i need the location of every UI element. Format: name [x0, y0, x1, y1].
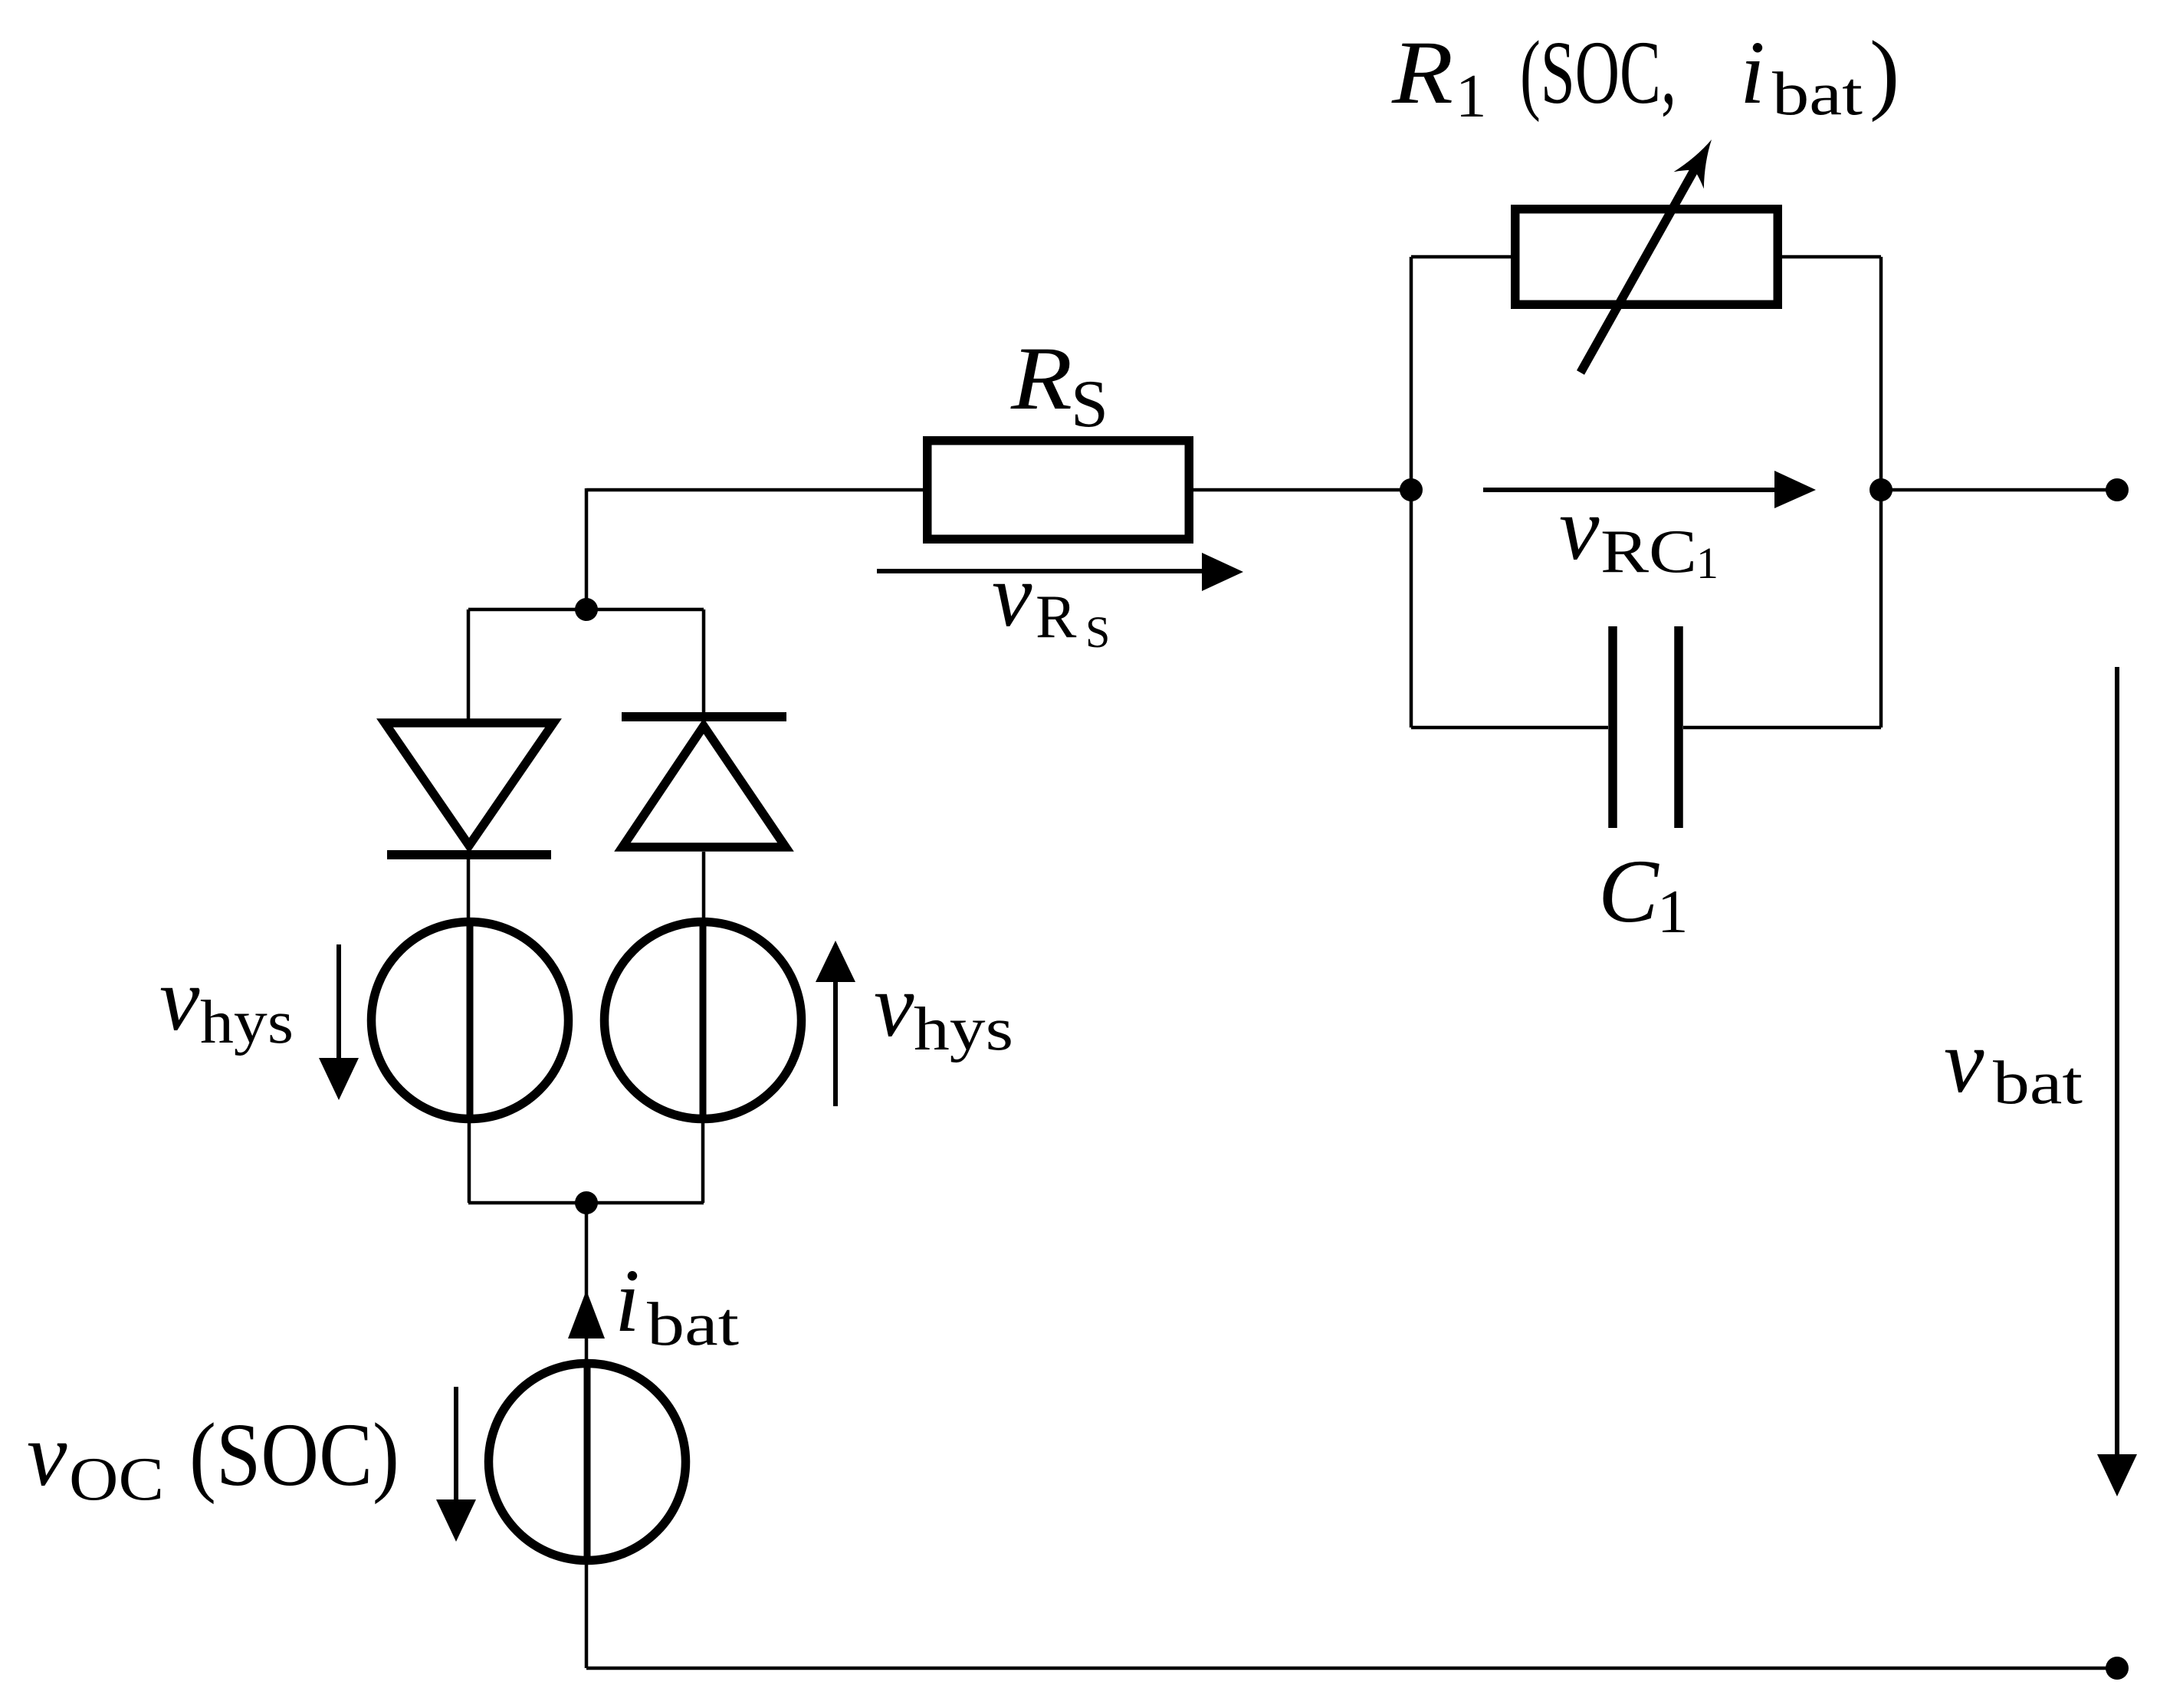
wire RC bottom rail right [1683, 726, 1881, 730]
arrow vRC1 line [1483, 488, 1777, 492]
voltage source vOC circle [489, 1364, 686, 1561]
wire RC top rail right [1782, 255, 1881, 259]
label iBat [615, 1250, 739, 1358]
arrow vOC down line [454, 1387, 458, 1502]
arrow iBat head on wire [568, 1290, 605, 1338]
svg-text:(SOC,: (SOC, [1520, 22, 1676, 123]
svg-text:C: C [1598, 841, 1659, 941]
arrow vRC1 head [1774, 471, 1816, 508]
variable resistor arrow shaft [1581, 166, 1696, 373]
node RC left dot [1400, 478, 1423, 501]
svg-text:v: v [159, 949, 200, 1049]
arrow vRS line [877, 569, 1204, 573]
diode D1 (discharge, pointing down) triangle [385, 723, 553, 846]
variable resistor arrowhead [1674, 140, 1712, 189]
wire right diode to source [702, 852, 706, 922]
svg-text:hys: hys [200, 989, 294, 1056]
svg-text:R: R [1391, 22, 1453, 123]
svg-text:bat: bat [1993, 1049, 2083, 1117]
label vhys right [874, 955, 1013, 1063]
voltage source vhys right internal line [700, 918, 707, 1123]
wire RC left vertical [1410, 257, 1413, 728]
wire right diode branch upper [702, 609, 706, 719]
svg-text:bat: bat [1772, 61, 1863, 128]
arrow vhys right up head [816, 941, 855, 982]
svg-text:v: v [992, 545, 1032, 645]
wire left diode to source [467, 857, 471, 922]
svg-text:bat: bat [647, 1291, 739, 1358]
capacitor C1 right plate [1674, 626, 1683, 828]
voltage source vOC internal line [584, 1359, 591, 1565]
wire RC right vertical [1879, 257, 1883, 728]
svg-text:R: R [1010, 328, 1072, 429]
label RS [1010, 328, 1108, 442]
wire right source to bottom rail [701, 1121, 705, 1203]
node junction dot top [575, 598, 598, 621]
svg-text:i: i [1740, 22, 1765, 123]
svg-text:1: 1 [1456, 61, 1487, 130]
svg-text:v: v [874, 955, 914, 1056]
wire from main to hysteresis junction [585, 488, 589, 609]
svg-text:v: v [1559, 478, 1600, 579]
resistor RS [927, 441, 1190, 540]
wire vOC source to bottom [585, 1562, 589, 1668]
svg-text:i: i [615, 1250, 640, 1351]
svg-text:(SOC): (SOC) [189, 1404, 399, 1505]
label vOC (SOC) [27, 1404, 399, 1513]
arrow vOC down head [436, 1499, 476, 1542]
arrow vRS head [1202, 553, 1243, 591]
label vBat [1944, 1011, 2083, 1117]
node RC right dot [1870, 478, 1892, 501]
diode D2 cathode bar [622, 712, 786, 721]
wire hysteresis bottom rail [468, 1201, 704, 1205]
arrow vBat head [2097, 1454, 2137, 1496]
svg-text:S: S [1071, 367, 1108, 442]
terminal dot positive [2106, 478, 2129, 501]
wire RC node to output terminal [1881, 488, 2117, 492]
arrow vhys left down head [319, 1058, 359, 1100]
svg-text:RC: RC [1600, 518, 1697, 586]
label vRS [992, 545, 1110, 657]
svg-text:1: 1 [1696, 538, 1718, 588]
wire RC bottom rail left [1411, 726, 1608, 730]
label vRC1 [1559, 478, 1718, 588]
node junction dot bottom [575, 1191, 598, 1214]
svg-text:v: v [27, 1404, 67, 1505]
svg-text:1: 1 [1657, 877, 1689, 946]
svg-text:S: S [1085, 607, 1110, 657]
arrow vhys left down line [336, 944, 341, 1060]
svg-text:): ) [1870, 22, 1899, 123]
resistor R1 (variable) [1515, 209, 1778, 305]
terminal dot negative [2106, 1657, 2129, 1680]
label R1 (SOC, ibat) [1391, 22, 1899, 130]
wire left diode branch upper [467, 609, 471, 721]
voltage source vhys left internal line [467, 918, 474, 1123]
voltage source vhys left circle [372, 922, 569, 1119]
capacitor C1 left plate [1608, 626, 1617, 828]
wire RS to RC node [1193, 488, 1411, 492]
label C1 [1598, 841, 1689, 946]
diode D1 cathode bar [387, 850, 551, 859]
wire main top-left horizontal [586, 488, 923, 492]
svg-text:OC: OC [69, 1446, 164, 1513]
arrow vBat line [2115, 667, 2119, 1457]
wire junction to vOC source [585, 1203, 589, 1361]
wire hysteresis top rail [468, 608, 704, 612]
wire bottom rail [586, 1667, 2117, 1670]
svg-text:v: v [1944, 1011, 1984, 1112]
diode D2 (charge, pointing up) triangle [622, 726, 786, 847]
svg-text:hys: hys [914, 996, 1013, 1063]
arrow vhys right up line [833, 982, 838, 1106]
voltage source vhys right circle [605, 922, 802, 1119]
wire left source to bottom rail [468, 1121, 471, 1203]
label vhys left [159, 949, 294, 1056]
svg-text:R: R [1036, 583, 1077, 651]
wire RC top rail left [1411, 255, 1511, 259]
